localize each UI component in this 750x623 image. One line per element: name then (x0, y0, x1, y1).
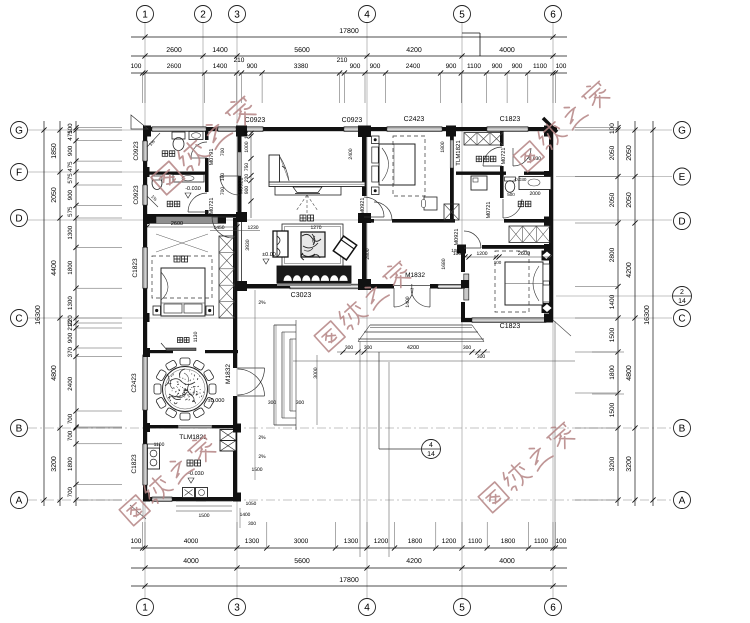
svg-text:A: A (16, 496, 23, 507)
foyer-corridor wall (362, 219, 455, 223)
svg-text:1: 1 (142, 603, 148, 614)
svg-text:B: B (679, 424, 686, 435)
svg-text:1500: 1500 (609, 402, 616, 417)
svg-text:C: C (15, 314, 22, 325)
svg-text:300: 300 (477, 354, 486, 360)
coffee table marble (301, 232, 325, 257)
svg-text:1800: 1800 (67, 260, 74, 274)
svg-text:2600: 2600 (167, 63, 182, 70)
window C1823 bedroom2 south (472, 318, 546, 323)
axis circle F left (11, 164, 28, 181)
bedroom1 rug dashed (393, 136, 425, 196)
watermark upper left (149, 93, 259, 195)
bath2 counter (173, 175, 204, 183)
axis grid line F (28, 171, 143, 173)
axis circle C right (674, 310, 691, 327)
axis circle A right (674, 492, 691, 509)
plan corner triangle NW (131, 115, 148, 129)
column with diamond SE bed top (542, 251, 553, 261)
top exterior wall (143, 127, 153, 131)
svg-text:2600: 2600 (171, 221, 183, 227)
svg-text:1500: 1500 (609, 327, 616, 342)
bedroom1 chair (424, 197, 437, 210)
svg-text:900: 900 (67, 145, 74, 156)
svg-text:300: 300 (268, 400, 277, 406)
bath2 toilet (152, 177, 162, 190)
svg-text:2%: 2% (258, 454, 266, 460)
dimension chain majors bottom (131, 567, 567, 569)
axis circle C left (11, 310, 28, 327)
dimension line 17800 top (131, 36, 567, 38)
extension lines left details (76, 127, 122, 129)
svg-text:17800: 17800 (339, 28, 359, 35)
svg-text:100: 100 (131, 538, 142, 545)
svg-text:TLM1821: TLM1821 (455, 140, 462, 166)
svg-text:1800: 1800 (67, 457, 74, 471)
site line vertical x389 (388, 362, 390, 557)
svg-text:750: 750 (244, 163, 250, 172)
axis circle B left (11, 420, 28, 437)
axis grid line D (28, 219, 672, 221)
svg-text:4400: 4400 (51, 260, 58, 276)
closet-bath wall (500, 131, 504, 146)
master nightstand left (153, 306, 161, 315)
svg-text:1230: 1230 (247, 225, 258, 231)
svg-text:4: 4 (364, 603, 370, 614)
axis grid line 1 (144, 23, 146, 598)
svg-text:2: 2 (680, 289, 684, 296)
svg-text:A: A (679, 496, 686, 507)
dim row bedroom2 (465, 256, 549, 258)
dimension chain majors right (634, 121, 636, 506)
roof corner wedge NE (543, 118, 557, 132)
bath1 sink (189, 132, 203, 140)
svg-text:2000: 2000 (529, 191, 540, 197)
svg-text:1400: 1400 (212, 47, 228, 54)
door bedroom1 (374, 202, 392, 220)
svg-text:4800: 4800 (626, 365, 633, 381)
axis circle 2 top (195, 6, 212, 23)
axis grid line A (28, 499, 672, 501)
master bed (161, 268, 205, 316)
svg-text:4000: 4000 (499, 47, 515, 54)
svg-text:±0.000: ±0.000 (208, 398, 225, 404)
bath divider wall left (147, 172, 207, 175)
svg-text:M0791: M0791 (209, 149, 215, 166)
dimension chain details top (131, 72, 567, 74)
sliding door TLM1821 bedroom1 (450, 140, 453, 168)
svg-text:C2423: C2423 (404, 116, 425, 123)
axis grid line G (28, 129, 672, 131)
svg-text:100: 100 (131, 63, 142, 70)
svg-text:2800: 2800 (609, 247, 616, 262)
double door M1832 entrance (394, 288, 413, 307)
svg-text:-0.030: -0.030 (185, 186, 201, 192)
svg-text:3380: 3380 (294, 63, 309, 70)
svg-text:700: 700 (220, 148, 226, 157)
svg-text:100: 100 (556, 63, 567, 70)
living TV wall band (269, 182, 365, 187)
svg-text:100: 100 (451, 248, 459, 253)
svg-text:3000: 3000 (313, 367, 319, 378)
master bedroom rug dashed (152, 256, 212, 298)
room label closet (476, 156, 482, 162)
svg-text:4: 4 (429, 442, 433, 449)
svg-text:C1823: C1823 (131, 454, 138, 474)
entry steps wing bottom (176, 500, 232, 502)
svg-text:1000: 1000 (244, 141, 250, 152)
sliding door TLM1821 kitchen (178, 426, 212, 428)
watermark center (313, 258, 414, 352)
extension lines bottom details (142, 522, 144, 548)
svg-text:M0721: M0721 (501, 148, 507, 165)
porch edge line horizontal (293, 360, 575, 362)
dining chairs (209, 384, 216, 394)
svg-text:6: 6 (550, 603, 556, 614)
svg-text:3: 3 (234, 10, 240, 21)
svg-text:C3023: C3023 (291, 292, 312, 299)
svg-text:C1823: C1823 (500, 323, 521, 330)
dimension line 16300 right (652, 121, 654, 506)
svg-text:3930: 3930 (245, 239, 251, 250)
svg-text:1800: 1800 (609, 365, 616, 380)
stair corridor east wall (238, 131, 242, 152)
bedroom2 rug dashed (495, 251, 529, 312)
svg-text:M0921: M0921 (239, 178, 245, 195)
section marker 2/14 right (673, 287, 692, 306)
kitchen appliances (183, 488, 195, 498)
svg-text:14: 14 (678, 298, 686, 305)
svg-text:1200: 1200 (476, 251, 487, 257)
svg-text:1500: 1500 (198, 513, 209, 519)
svg-text:4200: 4200 (406, 558, 422, 565)
living cabinet column (269, 155, 280, 182)
svg-text:1100: 1100 (467, 63, 481, 70)
window C0923 left-2 (143, 185, 148, 205)
svg-text:300: 300 (463, 345, 472, 351)
room label dining screen (178, 338, 183, 343)
bedroom2 pillows (543, 264, 550, 281)
svg-text:4800: 4800 (51, 365, 58, 381)
svg-text:-0.030: -0.030 (514, 177, 527, 182)
bedroom2 sliding door panel (464, 274, 469, 300)
bedroom1-closet wall (450, 131, 454, 219)
bedroom2 north wall (461, 245, 553, 249)
axis grid line 5 (461, 23, 463, 598)
door M0721 closet-bath (483, 147, 502, 166)
svg-text:C1823: C1823 (500, 116, 521, 123)
svg-text:700: 700 (220, 187, 226, 196)
svg-text:2600: 2600 (166, 47, 182, 54)
svg-text:2050: 2050 (609, 192, 616, 207)
svg-text:2600: 2600 (518, 251, 530, 257)
window band baths top (152, 127, 206, 132)
axis grid line 4 (366, 23, 368, 598)
bath1 shower corner (147, 133, 160, 147)
svg-text:100: 100 (494, 260, 502, 265)
column with diamond SE bed bottom (542, 303, 553, 313)
watermark right upper (512, 78, 613, 172)
svg-text:2400: 2400 (67, 376, 74, 390)
svg-text:5600: 5600 (294, 558, 310, 565)
axis grid line 6 (552, 23, 554, 598)
window C0923 top-left (242, 127, 263, 132)
living west railing wall (237, 222, 239, 284)
door bath2 (188, 193, 207, 212)
dining north wall with screen (143, 350, 173, 353)
svg-text:900: 900 (370, 63, 381, 70)
room label kitchen (187, 460, 193, 466)
svg-text:1800: 1800 (408, 538, 423, 545)
axis circle G left (11, 122, 28, 139)
svg-text:5: 5 (459, 10, 465, 21)
bedroom2 south wall (461, 318, 553, 322)
dimension line 17800 bottom (131, 585, 567, 587)
svg-text:1400: 1400 (240, 512, 251, 518)
axis circle 5 bottom (454, 599, 471, 616)
watermark bottom right (477, 419, 578, 513)
axis circle D right (674, 213, 691, 230)
svg-text:1100: 1100 (533, 63, 547, 70)
axis circle 3 bottom (229, 599, 246, 616)
extension lines top details (142, 73, 144, 103)
room label living (300, 215, 306, 221)
svg-text:4000: 4000 (499, 558, 515, 565)
dim row living (210, 230, 260, 232)
entrance steps south (370, 324, 472, 326)
svg-text:900: 900 (67, 332, 74, 343)
svg-text:2050: 2050 (626, 192, 633, 208)
svg-text:210: 210 (337, 57, 348, 64)
dimension chain details right (617, 121, 619, 506)
window C0923 top-mid (344, 127, 365, 132)
entrance door sill (394, 285, 430, 287)
bedroom2 west wall (461, 245, 465, 322)
wall master bedroom east (233, 218, 237, 353)
svg-text:3000: 3000 (294, 538, 309, 545)
porch steps west bracket (273, 325, 275, 425)
master nightstand right (206, 306, 214, 315)
east walkway dims (592, 351, 624, 353)
svg-text:700: 700 (67, 486, 74, 497)
small south window foyer (438, 284, 462, 288)
svg-text:C1823: C1823 (132, 258, 139, 278)
svg-text:1300: 1300 (67, 296, 74, 310)
svg-text:575: 575 (67, 173, 74, 184)
bedroom1 pillows (372, 147, 379, 163)
axis circle G right (674, 122, 691, 139)
svg-text:1050: 1050 (246, 501, 257, 507)
svg-text:900: 900 (67, 189, 74, 200)
svg-text:M0721: M0721 (209, 198, 215, 215)
svg-text:14: 14 (427, 451, 435, 458)
svg-text:2%: 2% (258, 300, 266, 306)
wing SW corner lines (130, 505, 146, 519)
svg-text:2400: 2400 (348, 148, 354, 159)
section marker 4/14 bottom (422, 440, 441, 459)
bath3 shower hatch (509, 226, 550, 243)
door M0921 stair corridor (220, 176, 239, 195)
svg-text:1680: 1680 (441, 258, 447, 269)
room label master bedroom (174, 256, 180, 262)
sofa bottom cushions (277, 266, 351, 283)
svg-text:900: 900 (446, 63, 457, 70)
hall dim chain vertical (250, 131, 252, 218)
svg-text:1300: 1300 (245, 538, 260, 545)
dining-kitchen wall TLM1821 (143, 425, 178, 428)
axis grid line C (28, 317, 672, 319)
axis circle B right (674, 420, 691, 437)
room label bath2 master (167, 201, 173, 207)
axis circle 5 top (454, 6, 471, 23)
window C2423 top (387, 127, 442, 132)
master bedroom wardrobe band (156, 217, 218, 224)
washroom-bath wall (500, 175, 504, 198)
svg-text:2050: 2050 (626, 145, 633, 161)
axis circle 1 top (137, 6, 154, 23)
axis circle 4 top (359, 6, 376, 23)
svg-text:210: 210 (67, 320, 74, 331)
bath3 counter (519, 177, 551, 190)
living TV set (275, 187, 341, 196)
site line vertical left (359, 341, 361, 557)
column blocks (143, 126, 151, 137)
armchair right rotated (333, 236, 356, 260)
svg-text:210: 210 (234, 57, 245, 64)
axis circle E right (674, 168, 691, 185)
svg-text:300: 300 (345, 345, 354, 351)
corridor south / bath walls east (504, 219, 553, 223)
living east wall (362, 131, 367, 196)
svg-text:4200: 4200 (626, 262, 633, 278)
svg-text:900: 900 (350, 63, 361, 70)
washer (471, 176, 487, 190)
site line vertical east (554, 321, 556, 548)
corridor shaft hatch (444, 204, 459, 220)
svg-text:16300: 16300 (644, 305, 651, 325)
svg-text:700: 700 (67, 430, 74, 441)
svg-text:4200: 4200 (406, 47, 422, 54)
master bedroom ceiling cross (156, 234, 208, 252)
svg-text:900: 900 (244, 186, 250, 195)
dimension chain majors left (59, 121, 61, 506)
svg-text:475: 475 (67, 161, 74, 172)
bottom wing window (152, 497, 172, 501)
svg-text:300: 300 (248, 521, 256, 527)
svg-text:1400: 1400 (213, 63, 228, 70)
svg-text:1450: 1450 (213, 225, 224, 231)
door bath1 (191, 142, 207, 158)
svg-text:1800: 1800 (440, 141, 446, 152)
axis 5 elbow jog (462, 32, 480, 34)
door M0721 bath3 lower (503, 199, 522, 218)
svg-text:3200: 3200 (51, 456, 58, 472)
svg-text:6: 6 (550, 10, 556, 21)
svg-text:M0721: M0721 (486, 202, 492, 219)
closet wardrobe hatch (464, 133, 503, 146)
svg-text:2800: 2800 (365, 248, 371, 259)
window C3023 living south (290, 284, 359, 289)
bath1 toilet (172, 132, 185, 139)
TV projection dashed (296, 195, 307, 211)
watermark kitchen (118, 432, 219, 526)
svg-text:M1832: M1832 (225, 364, 232, 384)
axis circle 6 top (545, 6, 562, 23)
svg-text:1800: 1800 (501, 538, 516, 545)
svg-text:300: 300 (296, 400, 305, 406)
svg-text:2050: 2050 (51, 187, 58, 203)
svg-text:900: 900 (512, 63, 523, 70)
entrance step dims (337, 351, 490, 353)
bottom wing wall (143, 497, 237, 501)
svg-text:3200: 3200 (609, 456, 616, 471)
bath2 shower slope (147, 196, 158, 207)
dimension chain details bottom (131, 547, 567, 549)
svg-text:D: D (15, 214, 22, 225)
svg-text:1: 1 (142, 10, 148, 21)
window C1823 left-3 (143, 247, 148, 288)
room label bath3 (518, 201, 524, 207)
svg-text:5600: 5600 (294, 47, 310, 54)
bedroom1 nightstands (372, 136, 380, 144)
bedroom1 bed (379, 144, 415, 185)
window C2423 left-4 (143, 355, 148, 410)
svg-text:370: 370 (67, 346, 74, 357)
svg-text:C0923: C0923 (133, 185, 140, 205)
svg-text:1850: 1850 (51, 143, 58, 159)
svg-text:4000: 4000 (183, 558, 199, 565)
svg-text:2400: 2400 (406, 63, 421, 70)
svg-text:F: F (16, 168, 22, 179)
master bedroom north wall (147, 214, 242, 218)
svg-text:100: 100 (556, 538, 567, 545)
svg-text:900: 900 (492, 63, 503, 70)
svg-text:2%: 2% (258, 435, 266, 441)
bath east wall (205, 131, 209, 140)
wing east wall dining-kitchen (233, 353, 237, 368)
svg-text:700: 700 (67, 413, 74, 424)
svg-text:16300: 16300 (35, 305, 42, 325)
axis circle 3 top (229, 6, 246, 23)
dimension line 16300 left (43, 121, 45, 506)
svg-text:1300: 1300 (67, 225, 74, 239)
sliding band corridor wall (238, 152, 242, 176)
svg-text:1100: 1100 (468, 538, 482, 545)
svg-text:E: E (679, 172, 686, 183)
svg-text:M0921: M0921 (454, 229, 460, 246)
extension lines right details (575, 127, 618, 129)
window C1823 top (487, 127, 528, 132)
svg-text:300: 300 (364, 345, 373, 351)
axis grid line 2 (202, 23, 204, 131)
master bedroom wardrobe hatch (219, 236, 235, 318)
axis circle D left (11, 210, 28, 227)
left exterior wall (143, 127, 147, 141)
axis grid line 3 (236, 23, 238, 598)
svg-text:±0.00: ±0.00 (262, 252, 276, 258)
room label bath1 (162, 151, 168, 157)
shower door bath3 (513, 148, 531, 166)
sofa rug rectangle (282, 224, 343, 266)
dim 2600 master (147, 226, 237, 228)
svg-text:C0923: C0923 (342, 117, 363, 124)
bath3 toilet (505, 177, 516, 181)
svg-text:1300: 1300 (344, 538, 359, 545)
svg-text:4200: 4200 (407, 345, 419, 351)
double door M1832 dining east (238, 368, 265, 395)
svg-text:1200: 1200 (374, 538, 389, 545)
kitchen flue shaft (220, 430, 236, 441)
